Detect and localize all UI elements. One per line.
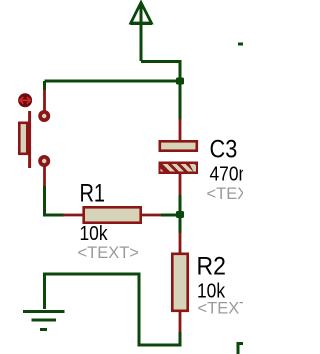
wire stub down from button-top wire bbox=[43, 81, 46, 90]
svg-text:R2: R2 bbox=[197, 253, 226, 281]
button terminal bottom bbox=[38, 155, 50, 167]
svg-text:10k: 10k bbox=[80, 222, 109, 244]
button pin top bbox=[43, 90, 46, 112]
wire from power arrow to top junction bbox=[141, 62, 180, 82]
button plunger bar bbox=[28, 111, 31, 168]
C3 pin bottom bbox=[179, 174, 182, 196]
button pin bottom bbox=[43, 166, 46, 187]
C3 pin top bbox=[179, 119, 182, 140]
R2 pin bottom bbox=[179, 312, 182, 333]
resistor R2 bbox=[172, 233, 187, 334]
C3 top plate bbox=[160, 141, 197, 150]
button actuator arrow bbox=[20, 98, 31, 104]
wire button top to junction bbox=[45, 80, 181, 83]
junction node (middle) bbox=[176, 211, 184, 218]
C3 bottom plate (hatched) bbox=[159, 162, 199, 175]
svg-text:470n: 470n bbox=[210, 162, 244, 184]
wire junction to R2 bbox=[179, 215, 182, 234]
button terminal top bbox=[38, 110, 50, 122]
R2 pin top bbox=[179, 233, 182, 254]
svg-text:10k: 10k bbox=[197, 279, 226, 301]
svg-text:<TEXT>: <TEXT> bbox=[78, 244, 139, 262]
wire C3 bottom to junction bbox=[179, 195, 182, 215]
push button (switch) bbox=[18, 90, 50, 188]
wire stub right edge top bbox=[238, 43, 243, 46]
button body rectangle bbox=[19, 123, 27, 154]
R1 body bbox=[84, 207, 141, 222]
wire junction to C3 top pin bbox=[179, 81, 182, 120]
ground bbox=[23, 312, 65, 330]
R1 pin left bbox=[63, 214, 83, 217]
svg-text:C3: C3 bbox=[210, 135, 238, 163]
R2 body bbox=[172, 254, 187, 311]
wire button bottom to R1 bbox=[45, 186, 65, 215]
wire R1 right to junction bbox=[161, 214, 180, 217]
button click actuator circle bbox=[18, 93, 32, 107]
capacitor C3 bbox=[159, 119, 199, 196]
power symbol (VCC arrow) bbox=[130, 3, 152, 62]
svg-text:<TEXT>: <TEXT> bbox=[207, 185, 244, 203]
wire R2 bottom to ground loop bbox=[45, 274, 181, 345]
wire corner bottom right bbox=[238, 344, 243, 354]
svg-text:R1: R1 bbox=[80, 179, 106, 207]
junction node (top) bbox=[176, 78, 184, 85]
R1 pin right bbox=[141, 214, 162, 217]
svg-text:<TEXT>: <TEXT> bbox=[198, 300, 244, 318]
resistor R1 bbox=[63, 207, 162, 222]
